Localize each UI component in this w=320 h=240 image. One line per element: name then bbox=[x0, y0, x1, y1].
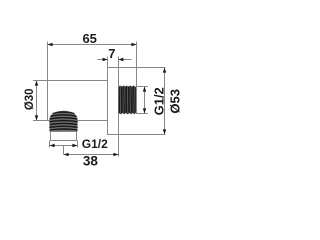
svg-text:G1/2: G1/2 bbox=[151, 87, 166, 115]
wall plate bbox=[108, 68, 119, 135]
dimension 65 bbox=[48, 42, 137, 114]
thread G1/2 bottom (shower hose side) bbox=[49, 111, 78, 141]
dimension 7 bbox=[98, 57, 132, 68]
svg-text:Ø30: Ø30 bbox=[24, 88, 36, 110]
thread G1/2 right (wall side) bbox=[119, 85, 137, 114]
plate extension lines to Ø53 dimension bbox=[108, 68, 166, 135]
svg-text:38: 38 bbox=[83, 153, 99, 168]
svg-text:Ø53: Ø53 bbox=[168, 89, 183, 114]
body tube outline bbox=[48, 42, 108, 121]
svg-text:65: 65 bbox=[82, 31, 96, 46]
dimension G1/2 bottom bbox=[50, 141, 78, 155]
dimension 38 bbox=[64, 135, 119, 157]
dimension Ø53 bbox=[164, 68, 166, 135]
dimension Ø30 bbox=[33, 81, 48, 121]
unthreaded shank bbox=[51, 132, 77, 141]
svg-text:7: 7 bbox=[108, 46, 115, 61]
dimension G1/2 right bbox=[136, 87, 148, 114]
svg-text:G1/2: G1/2 bbox=[82, 137, 108, 151]
